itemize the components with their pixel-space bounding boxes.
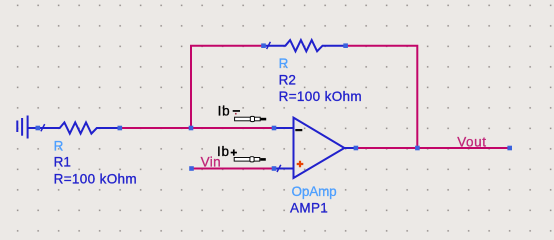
wire: input row from R1 right pin to op-amp inverting input [120,127,274,129]
pin-1 tick of R2 [267,42,271,49]
text anchor dot of Ib- [235,113,237,115]
node square: op-amp non-inverting input pin [272,166,277,171]
node square: Vin open end [189,166,194,171]
wire: left vertical feedback riser and top segment to R2 left pin [191,46,264,128]
node square: R1 right pin [118,126,123,131]
node square: junction of output row and right vertical [415,146,420,151]
node square: ground to R1 left pin [36,126,41,131]
svg-text:OpAmp: OpAmp [292,184,337,199]
op-amp output lead [344,147,356,149]
svg-text:Vout: Vout [457,134,486,149]
op-amp minus sign [295,129,302,131]
op-amp non-inverting input lead [274,168,294,170]
node square: junction of input row and feedback riser [189,126,194,131]
node square: R2 left pin [261,43,266,48]
svg-text:R=100 kOhm: R=100 kOhm [54,171,137,186]
op-amp plus sign [297,161,304,168]
op-amp U1 triangle body [294,118,345,178]
svg-text:R2: R2 [279,72,296,87]
current arrow Ib+ [234,157,266,162]
node square: R2 right pin [343,43,348,48]
wire: Vin row to op-amp non-inverting input [192,168,275,170]
svg-text:Vin: Vin [201,154,221,169]
svg-text:Ib: Ib [218,103,231,118]
svg-text:AMP1: AMP1 [290,201,328,216]
node square: op-amp output pin [354,146,359,151]
resistor R1 [38,122,120,133]
current arrow Ib- [235,116,267,121]
op-amp inverting input lead [274,127,294,129]
svg-text:R=100 kOhm: R=100 kOhm [279,89,362,104]
resistor R2 [264,40,346,51]
wire: top segment from R2 right pin and right vertical down to output row [346,46,418,148]
svg-text:R1: R1 [54,154,71,169]
node square: Vout open end [507,146,512,151]
node square: op-amp inverting input pin [272,126,277,131]
ground [17,116,38,139]
pin-1 tick of op-amp non-inverting lead [277,165,281,172]
wire: output row from op-amp output to Vout open end [356,147,510,149]
svg-text:R: R [54,138,64,153]
svg-text:R: R [279,56,289,71]
pin-1 tick of R1 [41,124,45,131]
